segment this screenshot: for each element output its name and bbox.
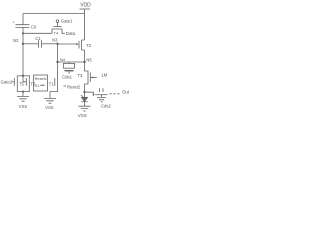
svg-text:N4: N4 <box>60 57 66 62</box>
wire y44 left <box>23 43 39 45</box>
svg-text:Reset2: Reset2 <box>67 84 81 89</box>
Reset2 label <box>64 85 67 87</box>
svg-text:T3: T3 <box>77 73 83 78</box>
transistor T2 <box>78 41 80 49</box>
svg-text:VSS: VSS <box>45 105 54 110</box>
photodiode D1 <box>84 92 86 97</box>
node N3 junction <box>56 43 58 45</box>
svg-text:T1: T1 <box>49 82 55 87</box>
svg-text:N2: N2 <box>13 38 19 43</box>
svg-text:VSS: VSS <box>19 104 28 109</box>
rail x23 upper <box>22 33 24 44</box>
wire y62 <box>58 61 85 63</box>
transistor T3 <box>85 62 89 92</box>
svg-text:C0: C0 <box>31 25 37 30</box>
transistor T5 <box>12 81 15 83</box>
wire top rail y13.5 <box>23 13 85 15</box>
svg-text:Gate1: Gate1 <box>61 19 73 24</box>
svg-text:T2: T2 <box>86 43 92 48</box>
node junction x23 y75.8 <box>22 75 24 77</box>
wire y75.8 block rail <box>17 75 30 77</box>
node N5 junction <box>83 61 85 63</box>
wire y44 gate of T2 <box>58 43 77 45</box>
wire T1 source to ground <box>50 88 58 98</box>
svg-text:Data: Data <box>66 31 76 36</box>
wire y33 to T4 <box>23 32 52 34</box>
svg-text:VSS: VSS <box>78 113 87 118</box>
svg-text:Gate2: Gate2 <box>1 79 13 84</box>
wire C0 top lead <box>22 14 24 25</box>
wire C0 bottom lead <box>22 27 24 33</box>
svg-text:N3: N3 <box>52 38 58 43</box>
svg-text:Reset1: Reset1 <box>35 76 47 81</box>
node junction photodiode <box>83 91 85 93</box>
ground left <box>17 96 29 101</box>
rail x23 lower <box>22 44 24 76</box>
VDD supply bar <box>80 8 91 10</box>
wire T5 T6 sources join <box>17 88 29 91</box>
wire VDD lead down rail <box>84 9 86 40</box>
capacitor plates T7 <box>100 88 104 92</box>
svg-text:C1: C1 <box>35 36 41 41</box>
svg-text:1M: 1M <box>101 72 107 77</box>
capacitor Cds1 <box>68 62 70 63</box>
capacitor C0 <box>16 25 30 28</box>
svg-text:N5: N5 <box>86 58 92 63</box>
svg-text:Out: Out <box>122 90 130 95</box>
svg-text:T4: T4 <box>54 31 59 36</box>
transistor T4 (horizontal) <box>52 29 65 33</box>
wire ground lead left <box>22 92 24 97</box>
node N2 junction <box>22 43 24 45</box>
ground mid <box>44 98 56 103</box>
wire y44 mid <box>42 43 58 45</box>
wire out corner with arrow <box>85 92 94 94</box>
rail x84.5 mid <box>84 50 86 62</box>
svg-text:Cds1: Cds1 <box>62 75 73 80</box>
svg-text:VDD: VDD <box>80 3 91 9</box>
node junction y33 <box>22 32 24 34</box>
rail x57.5 <box>57 44 59 76</box>
wire cds2 ground lead <box>101 95 103 98</box>
svg-text:Cds2: Cds2 <box>101 103 111 108</box>
Reset1 source box <box>34 75 48 91</box>
transistor T6 <box>23 76 26 82</box>
svg-text:+: + <box>12 19 15 24</box>
svg-text:S1: S1 <box>35 83 40 88</box>
node junction x57.5 y62 <box>56 61 58 63</box>
wire dashed out <box>110 93 122 95</box>
ground photodiode <box>79 106 91 111</box>
capacitor C1 <box>39 40 42 48</box>
ground cds2 <box>97 97 106 102</box>
wire out horizontal <box>95 94 107 96</box>
